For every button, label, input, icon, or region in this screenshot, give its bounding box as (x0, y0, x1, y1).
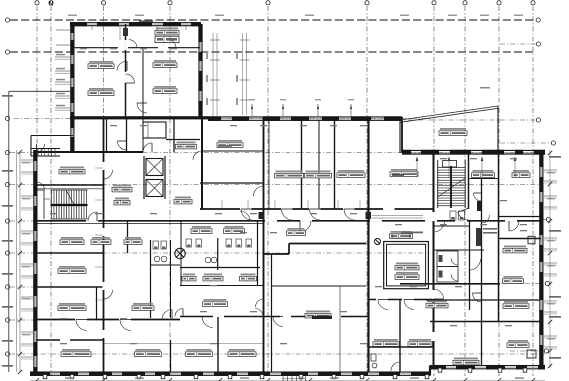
svg-text:N: N (49, 2, 53, 8)
